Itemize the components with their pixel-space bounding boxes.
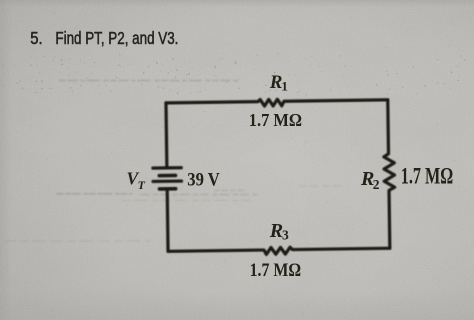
svg-text:3: 3: [282, 228, 289, 243]
svg-text:1: 1: [281, 79, 288, 94]
svg-text:2: 2: [373, 177, 380, 192]
svg-text:5.: 5.: [30, 28, 42, 48]
svg-text:39 V: 39 V: [187, 170, 220, 191]
svg-text:1.7 MΩ: 1.7 MΩ: [249, 110, 302, 130]
svg-text:T: T: [138, 178, 146, 192]
svg-text:1.7 MΩ: 1.7 MΩ: [401, 164, 453, 189]
svg-text:R: R: [269, 220, 283, 242]
svg-text:1.7 MΩ: 1.7 MΩ: [250, 260, 302, 281]
svg-text:Find PT, P2, and V3.: Find PT, P2, and V3.: [55, 28, 178, 48]
